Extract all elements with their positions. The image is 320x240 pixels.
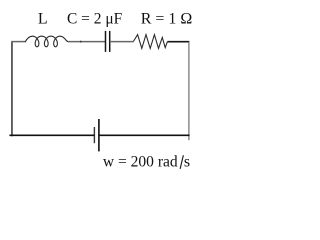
junction dot	[80, 41, 82, 43]
svg-text:w = 200 rad: w = 200 rad	[103, 153, 178, 170]
wire: left vertical	[11, 41, 13, 136]
wire: resistor to top-right corner	[167, 41, 189, 43]
battery short plate (-)	[93, 127, 95, 143]
capacitor C left plate	[105, 31, 107, 52]
svg-text:C = 2 μF: C = 2 μF	[67, 11, 122, 28]
wire: right vertical	[188, 42, 190, 141]
slash of rad/s	[180, 155, 183, 169]
wire: inductor to capacitor	[68, 41, 105, 43]
wire: top-left horizontal to inductor	[11, 41, 25, 43]
inductor L	[25, 36, 68, 47]
svg-text:L: L	[38, 11, 48, 28]
resistor R zigzag	[133, 35, 167, 49]
svg-text:s: s	[184, 153, 190, 170]
svg-text:R = 1 Ω: R = 1 Ω	[141, 11, 193, 28]
capacitor C right plate	[109, 31, 111, 52]
battery long plate (+)	[98, 119, 100, 151]
wire: bottom left horizontal	[9, 134, 94, 136]
wire: capacitor to resistor	[110, 41, 134, 43]
wire: bottom right horizontal	[99, 134, 190, 136]
